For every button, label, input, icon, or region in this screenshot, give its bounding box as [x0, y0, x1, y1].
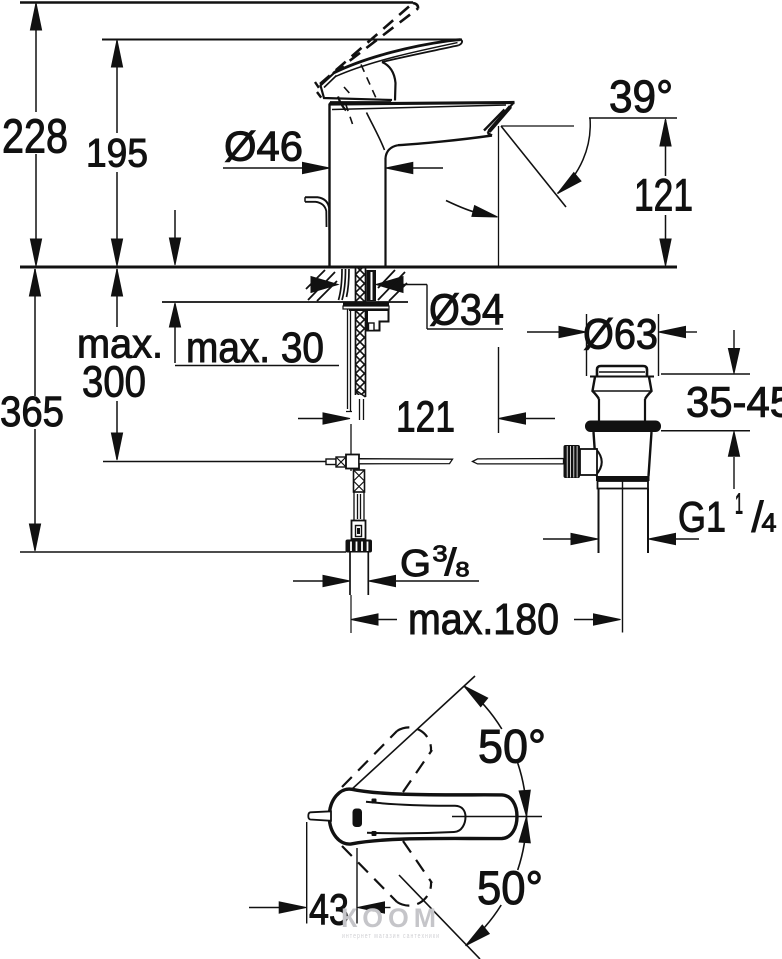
hose coupling hatched — [350, 469, 352, 472]
right pipe in hole — [367, 270, 377, 301]
dimension 228 — [35, 4, 37, 264]
50 degree arc segments — [464, 686, 502, 729]
flow direction curved arrow — [446, 201, 480, 214]
handle swung -50 dashed — [342, 841, 432, 902]
handle raised position (dashed) — [320, 3, 418, 84]
handle neck — [382, 62, 396, 101]
dimension max 30 — [174, 210, 176, 363]
pull rod segment — [351, 399, 364, 455]
faucet body top edge — [329, 103, 515, 105]
left hose double line — [346, 309, 352, 412]
dimension 365 — [34, 269, 36, 550]
svg-text:50°: 50° — [477, 861, 543, 914]
svg-text:8: 8 — [456, 559, 470, 582]
handle lever blade — [334, 40, 461, 73]
handle top view outline — [329, 789, 517, 844]
svg-text:max.180: max.180 — [408, 595, 559, 644]
rod clamp — [326, 459, 336, 465]
svg-text:интернет магазин сантехники: интернет магазин сантехники — [342, 931, 440, 940]
svg-text:max. 30: max. 30 — [186, 324, 324, 372]
drain ring — [598, 481, 649, 489]
dimension Ø63 — [527, 331, 560, 333]
50 degree extension line lower — [399, 875, 480, 959]
dimension G3/8 — [293, 580, 323, 582]
handle boss — [321, 74, 393, 101]
dimension 43 — [307, 822, 357, 924]
spout angle line — [501, 126, 566, 207]
dimension Ø46 — [223, 167, 303, 169]
ref line 365 bottom (hose nut level) — [20, 551, 346, 553]
svg-text:365: 365 — [0, 388, 64, 436]
horizontal pull rod left segment — [359, 459, 453, 464]
inner fillet curve — [367, 113, 385, 151]
dimension max 300 — [116, 269, 118, 459]
drain tailpipe — [599, 489, 649, 554]
handle swung +50 dashed — [342, 731, 432, 792]
flow horizontal line — [501, 125, 574, 127]
dimension 121 (spout reach) — [298, 418, 323, 420]
drain bottom band — [596, 476, 650, 481]
svg-text:50°: 50° — [478, 720, 546, 773]
svg-text:39°: 39° — [609, 71, 673, 122]
svg-text:121: 121 — [634, 170, 693, 221]
drain flare — [593, 377, 652, 399]
drain centerline — [622, 482, 624, 633]
counter hatch left — [306, 270, 337, 301]
faucet body column left edge — [328, 104, 330, 266]
svg-text:300: 300 — [82, 358, 146, 407]
spout end face — [488, 102, 515, 133]
counter underside line — [162, 301, 408, 303]
lever pin — [308, 811, 331, 821]
aerator lines — [489, 107, 511, 132]
pivot mark — [353, 809, 363, 828]
dimension 121 (spout height) — [665, 120, 667, 264]
dimension max180 — [351, 614, 378, 625]
svg-text:35-45: 35-45 — [686, 379, 782, 427]
drain body — [594, 432, 652, 476]
spout underside — [398, 133, 492, 145]
svg-text:G1: G1 — [678, 494, 726, 542]
dimension 35-45 — [661, 374, 750, 431]
hose shank — [354, 492, 364, 521]
svg-text:Ø63: Ø63 — [583, 311, 658, 359]
ref line 195 (handle height) — [102, 39, 462, 41]
hidden cartridge dashed lines — [344, 65, 376, 125]
39 degree arc — [558, 118, 591, 194]
dimension Ø34 — [311, 277, 338, 293]
horizontal pull rod right segment — [473, 459, 564, 464]
collar — [352, 521, 366, 540]
centerline — [452, 816, 542, 818]
svg-text:121: 121 — [396, 393, 455, 442]
svg-text:195: 195 — [86, 132, 148, 176]
ref line top (handle raised height) — [20, 1, 413, 3]
hoses in mounting hole — [339, 269, 350, 300]
hose nut — [346, 540, 373, 553]
mounting nut steps — [349, 310, 389, 331]
drain extension lines — [587, 314, 659, 376]
svg-text:Ø34: Ø34 — [429, 286, 504, 335]
drain flange (black) — [585, 421, 661, 433]
50 degree extension line upper — [351, 676, 475, 790]
svg-text:4: 4 — [762, 508, 777, 538]
svg-text:1: 1 — [735, 489, 743, 521]
handle top view inner contour — [366, 802, 466, 834]
ref line max300 bottom / pull-rod level — [103, 461, 326, 463]
drain neck — [599, 399, 645, 421]
threaded stud — [356, 268, 366, 395]
indicator dots — [372, 799, 377, 804]
ball joint curve — [596, 449, 602, 476]
svg-text:КООМ: КООМ — [341, 903, 441, 933]
drain dome cap — [597, 366, 647, 376]
svg-text:228: 228 — [2, 111, 68, 164]
spout outlet axis line — [498, 126, 500, 266]
dimension 195 — [116, 41, 118, 264]
mounting washer — [343, 303, 389, 307]
knurled knob — [564, 445, 581, 478]
flexible hose G3/8 — [350, 553, 368, 596]
svg-text:G: G — [400, 543, 431, 585]
svg-text:Ø46: Ø46 — [224, 123, 303, 170]
pop-up pull knob — [305, 197, 329, 230]
counter line — [20, 266, 677, 269]
handle front corner curve — [338, 97, 346, 111]
dimension 39 degrees — [589, 117, 677, 119]
counter hatch right — [378, 270, 407, 301]
